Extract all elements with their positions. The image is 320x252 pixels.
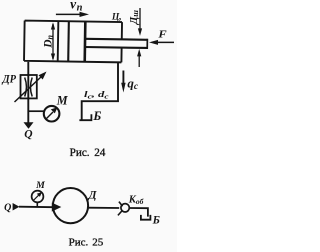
gauge needle fig24: [46, 107, 58, 119]
qc arrow: [121, 71, 125, 93]
check valve Kob seat: [118, 202, 129, 216]
svg-text:Рис.25: Рис.25: [69, 237, 104, 249]
main line left fig25: [19, 206, 54, 209]
Dsh dim arrow lower: [137, 49, 141, 67]
left pipe from cylinder: [27, 62, 29, 123]
line to check valve: [88, 207, 119, 209]
cylinder U body outline: [24, 21, 122, 63]
svg-text:Дш: Дш: [128, 10, 140, 26]
svg-text:Рис.24: Рис.24: [70, 147, 106, 159]
gauge M fig25: [32, 191, 44, 207]
gauge needle fig25: [34, 192, 42, 200]
svg-text:Dп: Dп: [42, 34, 54, 48]
tank B (fig24): [79, 114, 91, 120]
svg-text:M: M: [35, 180, 45, 191]
Dp dimension arrow: [51, 22, 55, 61]
piston lines: [58, 21, 86, 62]
motor D circle: [53, 188, 88, 223]
vp arrow: [56, 12, 89, 17]
Dsh dim arrow upper: [138, 8, 142, 36]
svg-text:Q: Q: [4, 203, 11, 214]
svg-text:ДР: ДР: [2, 72, 17, 86]
svg-text:Ц,: Ц,: [111, 13, 122, 23]
svg-text:Б: Б: [152, 214, 160, 226]
gauge M fig24 stub: [28, 106, 59, 122]
svg-text:Д: Д: [88, 189, 98, 201]
svg-text:lс, dс: lс, dс: [84, 89, 109, 100]
svg-text:Q: Q: [24, 128, 32, 140]
Q flow arrow fig24: [24, 122, 34, 129]
svg-text:M: M: [56, 94, 69, 108]
svg-text:vп: vп: [70, 0, 82, 13]
rod: [85, 38, 148, 49]
right pipe to tank: [82, 62, 118, 120]
svg-text:Б: Б: [92, 109, 101, 123]
arrowhead inside motor: [52, 203, 62, 212]
svg-text:F: F: [157, 30, 166, 41]
tank B fig25: [141, 215, 151, 220]
Q inlet triangle fig25: [13, 203, 20, 211]
line to tank fig25: [130, 208, 148, 217]
throttle adjust arrow: [15, 72, 47, 103]
F arrow: [149, 40, 174, 45]
svg-text:Коб: Коб: [128, 195, 144, 207]
throttle DR box: [21, 75, 37, 98]
svg-text:qс: qс: [127, 75, 139, 92]
